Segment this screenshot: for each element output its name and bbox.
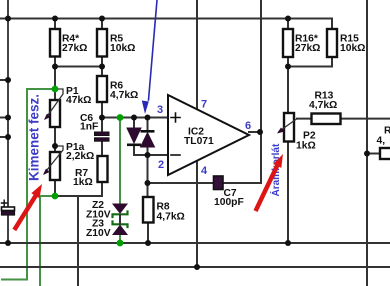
resistor R16 [283, 29, 320, 57]
wire left vertical rail [7, 0, 9, 243]
green node dots [52, 86, 124, 247]
wire output node vertical [260, 0, 262, 132]
svg-text:Kimenet fesz.: Kimenet fesz. [27, 94, 42, 181]
svg-text:TL071: TL071 [184, 136, 214, 147]
svg-text:2: 2 [158, 159, 164, 171]
blue annotation arrow [142, 0, 157, 114]
potentiometer P1 [44, 86, 91, 127]
wire green P1 feed [2, 89, 55, 280]
wire pin3 net [102, 117, 168, 119]
pin 4 label [201, 165, 208, 177]
svg-text:4,7kΩ: 4,7kΩ [110, 90, 138, 101]
wire diode pair stubs [134, 118, 148, 156]
wire pin2 net [148, 154, 169, 156]
pin 3 label [157, 104, 163, 116]
wire green P1a bottom feed [40, 196, 55, 286]
wire pin4 supply [196, 161, 198, 267]
wire green zener branch [119, 118, 121, 244]
wire R4 top stub [54, 19, 56, 30]
resistor R6 [97, 76, 138, 102]
wire R15 bottom link [288, 57, 332, 67]
svg-text:4,7kΩ: 4,7kΩ [309, 100, 337, 111]
svg-text:1kΩ: 1kΩ [296, 141, 316, 152]
wire pin7 supply [196, 0, 198, 110]
svg-text:10kΩ: 10kΩ [340, 43, 365, 54]
svg-text:1kΩ: 1kΩ [73, 177, 93, 188]
wire R8 bottom [147, 223, 149, 244]
resistor R15 [327, 29, 365, 57]
wire left stub A [0, 79, 8, 81]
svg-text:3: 3 [157, 104, 163, 116]
wire P1 to P1a [54, 127, 56, 196]
potentiometer P2 [277, 113, 316, 152]
resistor R4 [50, 29, 87, 57]
op-amp IC2 [168, 95, 249, 175]
resistor R13 [309, 91, 341, 125]
label Aramkorlat [269, 143, 282, 196]
wire R5 top stub [101, 19, 103, 30]
resistor R14 edge [377, 126, 390, 160]
wire feedback path [148, 132, 262, 183]
diode D1 [127, 128, 141, 146]
svg-text:4,: 4, [377, 136, 386, 147]
svg-text:10kΩ: 10kΩ [110, 43, 135, 54]
svg-text:100pF: 100pF [214, 197, 244, 208]
svg-text:6: 6 [245, 120, 251, 132]
svg-text:7: 7 [201, 99, 207, 111]
wire inverting node down to R8 [147, 155, 149, 197]
resistor R7 [73, 156, 108, 188]
wire drop at x78 [77, 196, 79, 286]
wire top supply rail [0, 19, 332, 30]
pin 2 label [158, 159, 164, 171]
potentiometer P1a [43, 142, 94, 180]
wire left stub B [0, 117, 8, 119]
pin 7 label [201, 99, 207, 111]
wire R4 bottom to P1 top [54, 67, 56, 101]
svg-text:2,2kΩ: 2,2kΩ [66, 151, 94, 162]
diode D2 [141, 130, 155, 147]
svg-text:1nF: 1nF [80, 122, 98, 133]
svg-text:4,7kΩ: 4,7kΩ [157, 212, 185, 223]
wire left stub C [0, 136, 8, 138]
label Kimenet fesz. [27, 94, 42, 181]
wire C6-R7 chain [55, 118, 102, 197]
wire right vertical rail [366, 0, 368, 286]
wire R4-R5 bottom junction [55, 57, 102, 67]
pin 6 label [245, 120, 251, 132]
zener Z2 [86, 200, 128, 221]
capacitor C-out polarized [2, 200, 15, 215]
wire R6 stubs [101, 67, 103, 118]
wire bottom rail 1 [0, 242, 390, 244]
resistor R5 [97, 29, 135, 57]
resistor R8 [143, 197, 185, 223]
wire P2 bottom [287, 142, 289, 244]
capacitor C7 [214, 176, 244, 208]
wire R16 stub and chain [287, 19, 289, 114]
red annotation arrow 2 [257, 154, 284, 209]
zener Z3 [86, 215, 128, 239]
svg-text:27kΩ: 27kΩ [62, 43, 87, 54]
svg-text:Z10V: Z10V [86, 228, 111, 239]
capacitor C6 [80, 113, 109, 141]
wire R13 output [297, 118, 390, 120]
wire bottom rail 2 [0, 266, 390, 268]
svg-text:47kΩ: 47kΩ [66, 95, 91, 106]
svg-text:4: 4 [201, 165, 208, 177]
svg-text:27kΩ: 27kΩ [295, 43, 320, 54]
wire op-amp output [249, 131, 261, 133]
wire right stub to R14 [367, 153, 380, 155]
red annotation arrow 1 [16, 184, 43, 228]
